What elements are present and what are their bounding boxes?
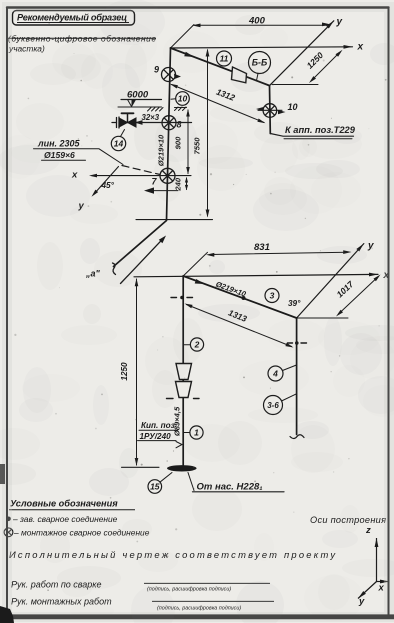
svg-text:x: x	[378, 583, 385, 594]
svg-text:39°: 39°	[288, 299, 301, 308]
svg-text:1250: 1250	[120, 362, 129, 381]
svg-text:Кип. поз: Кип. поз	[141, 421, 176, 430]
svg-text:1017: 1017	[335, 278, 357, 299]
svg-text:1250: 1250	[305, 50, 326, 71]
svg-text:45°: 45°	[101, 181, 115, 190]
svg-text:1РУ/240: 1РУ/240	[140, 432, 172, 441]
svg-text:831: 831	[254, 242, 270, 253]
svg-text:1312: 1312	[215, 87, 237, 103]
svg-text:z: z	[365, 525, 371, 536]
svg-text:3: 3	[270, 291, 275, 301]
svg-text:10: 10	[288, 102, 298, 112]
svg-text:14: 14	[114, 139, 124, 149]
svg-text:x: x	[357, 42, 364, 53]
svg-text:15: 15	[150, 482, 160, 492]
svg-text:10: 10	[178, 94, 188, 104]
svg-text:y: y	[336, 17, 343, 28]
svg-text:y: y	[367, 241, 374, 252]
svg-text:9: 9	[154, 65, 159, 75]
svg-text:Ø219×10: Ø219×10	[215, 280, 248, 299]
svg-text:11: 11	[220, 54, 229, 64]
svg-text:– зав. сварное соединение: – зав. сварное соединение	[12, 514, 118, 524]
svg-text:участка): участка)	[8, 44, 45, 54]
svg-text:Условные обозначения: Условные обозначения	[10, 499, 118, 509]
svg-text:Ø89×4,5: Ø89×4,5	[173, 406, 182, 436]
